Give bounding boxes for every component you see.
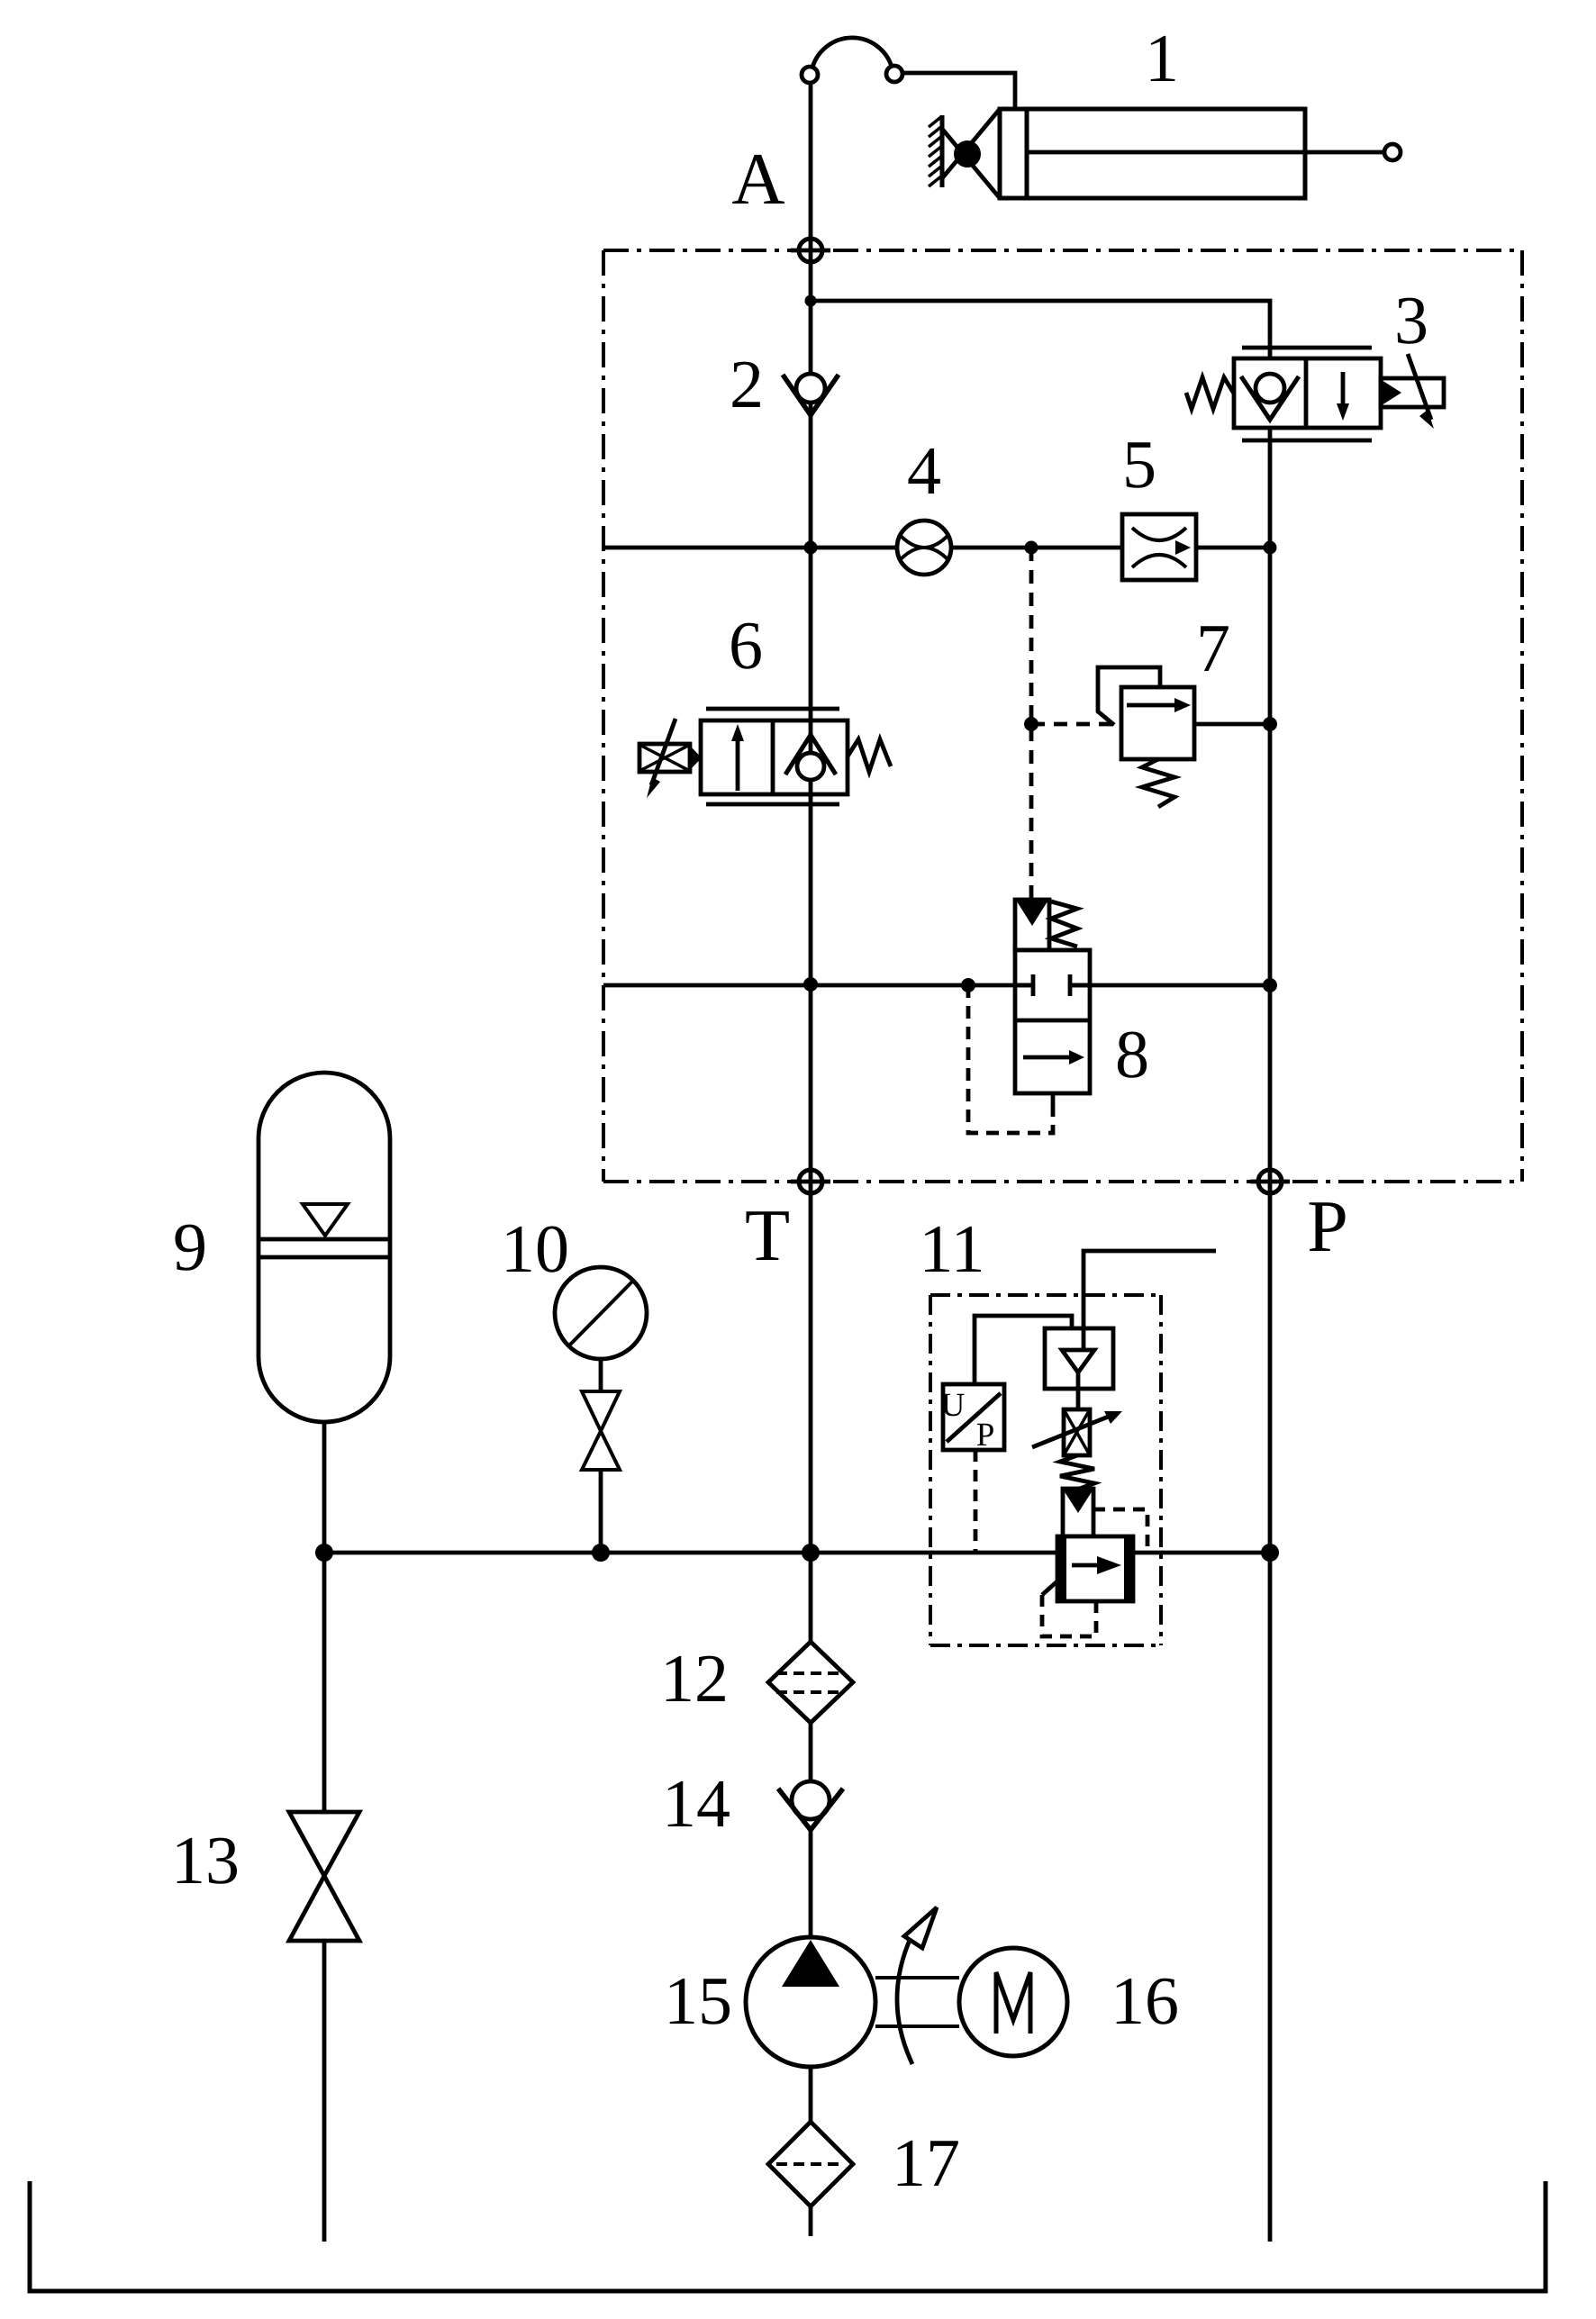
wire cylinder supply <box>902 73 1015 109</box>
valve 3 solenoid arrow <box>1408 354 1431 420</box>
valve 6 proportional lines <box>706 707 839 711</box>
manifold border dash-dot <box>603 249 1522 252</box>
svg-text:14: 14 <box>662 1766 730 1842</box>
svg-text:U: U <box>941 1387 966 1424</box>
comp11 drain diagonal <box>1042 1579 1060 1595</box>
node y1094 T <box>803 977 818 992</box>
svg-text:5: 5 <box>1122 427 1156 503</box>
cylinder 1 rod <box>1027 150 1384 155</box>
wire filter to check <box>809 1723 813 1781</box>
node bus T <box>802 1544 820 1562</box>
port A <box>791 249 830 253</box>
tank <box>30 2181 1546 2291</box>
accumulator 9 <box>258 1073 390 1422</box>
svg-text:3: 3 <box>1394 283 1428 358</box>
valve 8 closed ticks <box>1015 974 1090 996</box>
svg-text:8: 8 <box>1115 1017 1149 1092</box>
valve 6 up arrow <box>736 731 740 791</box>
flow control 5 <box>1122 514 1196 580</box>
cylinder 1 X brace <box>942 109 1000 198</box>
component 11 box dash-dot <box>930 1293 1161 1297</box>
check valve 2 <box>796 374 825 403</box>
cylinder 1 rod end <box>1384 144 1401 160</box>
node y608 P <box>1264 541 1277 555</box>
svg-text:1: 1 <box>1145 21 1179 96</box>
filter 12 <box>768 1642 853 1723</box>
valve 7 rear square <box>1098 667 1160 725</box>
coupler circle right <box>886 66 902 82</box>
node y1094 P <box>1263 978 1277 992</box>
node valve7 P <box>1263 717 1277 731</box>
svg-text:10: 10 <box>501 1211 569 1287</box>
valve 6 solenoid <box>639 744 690 772</box>
wire accumulator down <box>322 1422 327 1553</box>
wire mid line y608 <box>603 546 1270 550</box>
valve 8 drain stub <box>1051 1093 1056 1110</box>
valve 3 check <box>1256 374 1284 403</box>
svg-text:12: 12 <box>660 1641 729 1717</box>
coupler circle left <box>802 67 818 83</box>
gauge 10 <box>555 1267 647 1359</box>
svg-text:9: 9 <box>173 1209 207 1285</box>
cylinder 1 pivot <box>954 140 981 168</box>
node bus P <box>1261 1544 1279 1562</box>
comp11 UP dashed down <box>974 1450 978 1553</box>
svg-text:T: T <box>745 1194 790 1276</box>
node y608 T <box>804 541 818 555</box>
pump 15 <box>746 1937 875 2067</box>
orifice 4 <box>897 521 951 575</box>
valve 6 solenoid arrow <box>651 719 676 785</box>
comp11 branch to UP box <box>975 1316 1072 1384</box>
cylinder 1 wall hatching <box>929 116 942 186</box>
pilot dashed to valve 7 <box>1031 722 1114 727</box>
valve 6 body <box>701 720 848 794</box>
comp11 spring <box>1060 1455 1094 1490</box>
svg-text:16: 16 <box>1111 1963 1179 2039</box>
pilot line dashed vertical <box>1029 548 1034 900</box>
wire line y1094 right <box>1070 983 1270 988</box>
svg-text:7: 7 <box>1196 611 1230 686</box>
svg-text:13: 13 <box>171 1823 240 1898</box>
wire pump to strainer <box>809 2067 813 2122</box>
svg-text:P: P <box>1307 1185 1348 1267</box>
cylinder 1 body <box>1000 109 1305 198</box>
node junction top <box>805 295 817 307</box>
valve 8 pilot box <box>1015 900 1049 950</box>
svg-text:15: 15 <box>664 1963 732 2039</box>
comp11 check box <box>1045 1328 1113 1389</box>
valve 7 front square <box>1121 687 1194 759</box>
comp11 feedback dashed right <box>1093 1509 1147 1553</box>
wire P-line vertical main <box>1268 428 1273 2242</box>
valve 3 proportional lines <box>1242 346 1372 350</box>
valve 6 check <box>809 720 813 794</box>
valve 3 solenoid <box>1381 378 1444 407</box>
valve 6 spring <box>848 739 891 772</box>
wire line y1094 left <box>603 983 1033 988</box>
valve 8 spring <box>1051 901 1077 947</box>
node bus gauge <box>592 1544 610 1562</box>
wire T-line vertical main <box>809 83 813 1642</box>
port P <box>1250 1180 1290 1184</box>
svg-text:A: A <box>731 138 784 220</box>
svg-text:17: 17 <box>892 2125 960 2201</box>
wire top line A to valve 3 <box>811 301 1270 358</box>
valve 8 feedback dashed <box>968 985 1053 1133</box>
wire valve7 to P <box>1194 722 1270 727</box>
node y1094 pilot8 <box>961 978 975 992</box>
svg-text:11: 11 <box>919 1211 984 1287</box>
comp11 body arrow <box>1072 1563 1101 1568</box>
check valve 14 <box>792 1781 830 1819</box>
svg-text:P: P <box>976 1417 995 1454</box>
comp11 pilot box <box>1063 1489 1093 1536</box>
valve 7 arrow <box>1127 703 1178 708</box>
svg-text:6: 6 <box>729 608 763 684</box>
comp11 drain dashed <box>1042 1595 1096 1636</box>
svg-text:2: 2 <box>730 347 764 422</box>
motor 16 <box>959 1948 1067 2056</box>
cylinder 1 cap line <box>1025 109 1029 198</box>
valve 3 body <box>1234 358 1381 428</box>
comp11 main valve body <box>1057 1536 1133 1601</box>
gauge shutoff valve <box>582 1391 620 1470</box>
hose arc <box>812 38 892 68</box>
valve 3 arrow down <box>1341 372 1346 405</box>
valve 3 spring <box>1186 377 1234 409</box>
comp11 U P converter <box>943 1384 1004 1450</box>
valve 8 arrow <box>1023 1055 1070 1060</box>
wire bottom bus <box>324 1551 1270 1555</box>
svg-text:4: 4 <box>907 433 941 509</box>
variable arrow <box>897 1938 912 2064</box>
node bus accumulator <box>315 1544 333 1562</box>
valve 8 body <box>1015 950 1090 1093</box>
strainer 17 <box>768 2122 853 2206</box>
valve 7 spring <box>1142 759 1174 807</box>
node pilot 7 <box>1024 717 1038 731</box>
shutoff valve 13 <box>322 1553 327 1812</box>
comp11 throttle <box>1064 1409 1090 1455</box>
port T <box>791 1180 830 1184</box>
node y608 pilot <box>1025 541 1038 555</box>
comp11 external line <box>1084 1251 1216 1328</box>
pump shaft <box>875 1978 959 2026</box>
cylinder 1 mount wall <box>940 115 945 187</box>
